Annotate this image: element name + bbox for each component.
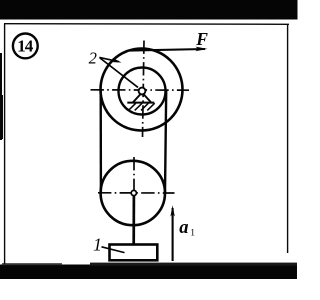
force F arrowhead (196, 47, 208, 52)
svg-text:1: 1 (93, 235, 102, 255)
stepped pulley 2: outer circle (101, 49, 183, 131)
label 1 leader line (102, 247, 125, 253)
svg-text:2: 2 (89, 48, 97, 67)
vertical center line (dash-dot) through lower pulley (133, 157, 135, 196)
acceleration a1 arrow line (172, 208, 174, 261)
force F line (130, 49, 206, 51)
label 2 leader line long (to pivot) (100, 58, 138, 87)
horizontal center line (dash-dot) of stepped pulley (91, 89, 190, 91)
problem number badge circle (13, 34, 38, 59)
lower pulley center small circle (131, 190, 136, 195)
svg-text:F: F (195, 29, 208, 49)
pivot bearing: small center circle (139, 88, 146, 95)
left scan artifact strip (0, 53, 2, 140)
label 2 leader arrowhead (112, 58, 122, 63)
rope right segment (tangent to inner circle and lower pulley) (165, 91, 166, 193)
pivot bearing: support triangle (133, 94, 151, 102)
rope from lower pulley to block 1 (132, 196, 135, 245)
rope left segment (tangent to outer circle and lower pulley) (99, 90, 102, 193)
svg-text:a: a (179, 218, 188, 238)
frame border left line (4, 24, 6, 265)
block 1 rectangle (110, 245, 158, 261)
label 2 leader line short (to outer circle) (99, 57, 118, 61)
frame border top line (4, 23, 289, 26)
bottom black scan bar (0, 265, 297, 280)
svg-text:1: 1 (190, 228, 195, 238)
pivot bearing: hatching (128, 103, 154, 110)
top black scan bar (0, 0, 298, 20)
vertical center line (dash-dot) through stepped pulley (143, 41, 145, 138)
lower pulley circle (101, 161, 165, 225)
pivot bearing: base line (127, 102, 154, 104)
stepped pulley 2: inner circle (119, 68, 166, 115)
acceleration a1 arrowhead (170, 205, 174, 216)
frame border right line (287, 24, 289, 253)
svg-text:14: 14 (17, 36, 34, 55)
horizontal center line (dash-dot) of lower pulley (98, 192, 175, 194)
